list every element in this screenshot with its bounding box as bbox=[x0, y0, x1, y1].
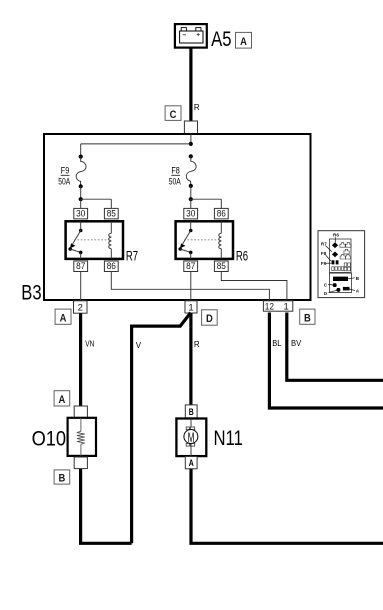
connector label A (battery) bbox=[236, 32, 252, 48]
svg-text:87: 87 bbox=[76, 261, 85, 272]
legend connector D dot bbox=[324, 288, 341, 296]
legend label R7 bbox=[321, 241, 332, 251]
box B3 bbox=[44, 134, 311, 300]
svg-text:F8: F8 bbox=[171, 166, 179, 176]
svg-text:R7: R7 bbox=[321, 241, 327, 246]
svg-text:12: 12 bbox=[265, 302, 274, 313]
svg-text:A: A bbox=[59, 394, 66, 406]
svg-text:A: A bbox=[189, 458, 194, 469]
connector pin box at B3 top edge bbox=[184, 121, 197, 134]
svg-text:A: A bbox=[60, 313, 67, 325]
wire: R7 pin 86 to connector B pin 12 bbox=[111, 272, 269, 301]
svg-text:86: 86 bbox=[217, 209, 226, 220]
svg-text:BV: BV bbox=[291, 339, 302, 348]
svg-text:VN: VN bbox=[85, 340, 94, 349]
svg-text:1: 1 bbox=[188, 302, 193, 313]
svg-text:B: B bbox=[189, 407, 194, 418]
svg-text:50A: 50A bbox=[169, 176, 181, 186]
legend relay outline icons bbox=[340, 243, 351, 259]
svg-text:B3: B3 bbox=[21, 281, 41, 304]
pin 1 box (connector D) bbox=[185, 301, 197, 314]
legend connector B block bbox=[333, 276, 360, 281]
relay R7 bbox=[66, 208, 123, 272]
svg-text:D: D bbox=[206, 313, 213, 325]
wire: R6 pin 87 to pin 1 bbox=[190, 272, 192, 301]
motor N11 bbox=[176, 405, 206, 469]
pins 12 / 1 box (connector B) bbox=[263, 301, 292, 313]
legend relay R7 diamond bbox=[332, 252, 338, 258]
svg-text:A: A bbox=[240, 36, 247, 48]
relay R6 bbox=[176, 208, 233, 272]
wire BL bbox=[269, 313, 383, 409]
wire R to N11 bbox=[189, 313, 192, 405]
wire: feed junction inside B3 bbox=[81, 134, 193, 157]
connector label A (O10) bbox=[54, 391, 70, 407]
svg-text:R7: R7 bbox=[126, 247, 138, 263]
svg-text:V: V bbox=[136, 341, 142, 350]
wire V bbox=[132, 313, 191, 544]
legend label F8 bbox=[321, 251, 331, 261]
svg-text:A5: A5 bbox=[211, 28, 231, 51]
svg-text:B: B bbox=[304, 313, 311, 325]
connector label C bbox=[165, 106, 181, 121]
wire R: battery to B3 bbox=[189, 48, 192, 122]
svg-text:87: 87 bbox=[186, 261, 195, 272]
svg-text:R: R bbox=[194, 103, 200, 112]
svg-text:R: R bbox=[194, 340, 200, 349]
svg-text:B: B bbox=[59, 473, 66, 485]
svg-text:N11: N11 bbox=[214, 427, 243, 450]
legend fuse outline squares bbox=[332, 263, 351, 271]
svg-text:1: 1 bbox=[284, 302, 289, 313]
svg-text:R6: R6 bbox=[333, 233, 339, 238]
pin 2 box (connector A) bbox=[74, 301, 88, 314]
connector label B (O10) bbox=[54, 470, 70, 485]
svg-text:30: 30 bbox=[186, 209, 195, 220]
legend connector C dot bbox=[324, 282, 337, 287]
svg-text:BL: BL bbox=[272, 339, 282, 348]
svg-text:85: 85 bbox=[107, 209, 116, 220]
legend fuses F8/F9 black squares bbox=[332, 260, 339, 264]
legend label F9 bbox=[321, 261, 332, 266]
svg-text:50A: 50A bbox=[58, 176, 70, 186]
wire: R6 pin 85 to connector B pin 1 bbox=[221, 272, 287, 301]
svg-text:2: 2 bbox=[78, 302, 83, 313]
wire: O10 to V wire (bottom U) bbox=[81, 469, 132, 543]
wire: N11 to right edge bbox=[191, 469, 383, 544]
connector label B bbox=[300, 309, 315, 324]
label F9 50A bbox=[58, 166, 70, 187]
wire VN bbox=[79, 313, 82, 406]
svg-text:86: 86 bbox=[107, 261, 116, 272]
svg-text:30: 30 bbox=[76, 209, 85, 220]
node: F8 output junction bbox=[189, 197, 222, 208]
wire BV bbox=[287, 313, 383, 381]
fuse F8 50A bbox=[186, 154, 196, 199]
svg-text:O10: O10 bbox=[32, 428, 67, 451]
connector label D bbox=[202, 310, 218, 325]
battery A5 bbox=[175, 24, 207, 47]
label F8 50A bbox=[169, 166, 181, 187]
svg-text:C: C bbox=[170, 109, 177, 121]
legend relay R6 diamond bbox=[332, 242, 338, 248]
wire: R7 pin 87 to pin 2 bbox=[80, 272, 82, 301]
connector label A bbox=[55, 309, 71, 324]
legend connector A block bbox=[343, 287, 360, 294]
fuse F9 50A bbox=[76, 155, 86, 200]
node: F9 output junction bbox=[79, 197, 112, 208]
resistor O10 bbox=[68, 406, 96, 469]
svg-text:F9: F9 bbox=[61, 166, 69, 176]
svg-text:R6: R6 bbox=[236, 247, 248, 263]
legend box bbox=[318, 231, 365, 298]
svg-text:85: 85 bbox=[217, 261, 226, 272]
legend label R6 bbox=[333, 233, 339, 243]
svg-text:M: M bbox=[188, 430, 195, 445]
